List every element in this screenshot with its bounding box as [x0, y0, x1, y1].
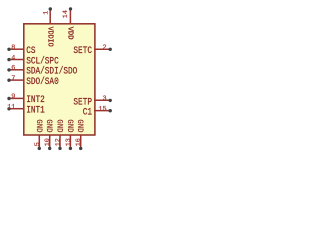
pin 4 SCL/SPC wire [9, 59, 25, 61]
pin 15 C1 wire [94, 110, 110, 112]
svg-text:15: 15 [98, 105, 106, 113]
pin 5 dot [38, 147, 41, 150]
pin 16 dot [79, 147, 82, 150]
svg-text:14: 14 [62, 10, 70, 18]
pin 16 GND wire [80, 135, 82, 148]
svg-text:13: 13 [65, 138, 73, 146]
svg-text:5: 5 [34, 142, 42, 146]
pin 9 dot [7, 97, 10, 100]
pin 12 GND wire [59, 135, 61, 148]
pin 8 dot [7, 48, 10, 51]
svg-text:4: 4 [11, 54, 15, 62]
pin 2 dot [109, 48, 112, 51]
pin 8 CS wire [9, 48, 25, 50]
pin 1 dot [49, 7, 52, 10]
pin 11 INT1 wire [9, 108, 25, 110]
svg-text:7: 7 [11, 75, 15, 83]
pin 6 SDA/SDI/SDO wire [9, 69, 25, 71]
pin 1 VDDIO wire [49, 9, 51, 25]
svg-text:10: 10 [44, 138, 52, 146]
pin 4 dot [7, 58, 10, 61]
pin 3 SETP wire [94, 99, 110, 101]
pin 13 dot [69, 147, 72, 150]
svg-text:8: 8 [11, 44, 15, 52]
pin 10 GND wire [49, 135, 51, 148]
pin 2 SETC wire [94, 48, 110, 50]
svg-text:C1: C1 [83, 106, 92, 118]
pin 14 dot [69, 7, 72, 10]
pin 6 dot [7, 68, 10, 71]
svg-text:9: 9 [11, 93, 15, 101]
pin 10 dot [48, 147, 51, 150]
svg-text:INT1: INT1 [26, 103, 45, 115]
pin 15 dot [109, 109, 112, 112]
svg-text:2: 2 [103, 44, 107, 52]
pin 7 dot [7, 79, 10, 82]
svg-text:6: 6 [11, 65, 15, 73]
svg-text:GND: GND [65, 119, 73, 132]
pin 11 dot [7, 107, 10, 110]
pin 12 dot [58, 147, 61, 150]
svg-text:3: 3 [103, 95, 107, 103]
svg-text:SDO/SA0: SDO/SA0 [26, 75, 59, 87]
svg-text:11: 11 [7, 104, 15, 112]
pin 3 dot [109, 99, 112, 102]
IC body [24, 24, 95, 135]
pin 7 SDO/SA0 wire [9, 79, 25, 81]
pin 14 VDD wire [69, 9, 71, 25]
pin 13 GND wire [69, 135, 71, 148]
svg-text:VDD: VDD [66, 27, 74, 41]
svg-text:GND: GND [34, 119, 42, 132]
pin 5 GND wire [38, 135, 40, 148]
svg-text:16: 16 [75, 138, 83, 146]
pin 9 INT2 wire [9, 97, 25, 99]
svg-text:12: 12 [55, 138, 63, 146]
svg-text:GND: GND [75, 119, 83, 132]
svg-text:GND: GND [54, 119, 62, 132]
svg-text:1: 1 [43, 11, 51, 15]
svg-text:VDDIO: VDDIO [45, 27, 53, 47]
svg-text:SETC: SETC [73, 44, 92, 56]
svg-text:GND: GND [44, 119, 52, 132]
